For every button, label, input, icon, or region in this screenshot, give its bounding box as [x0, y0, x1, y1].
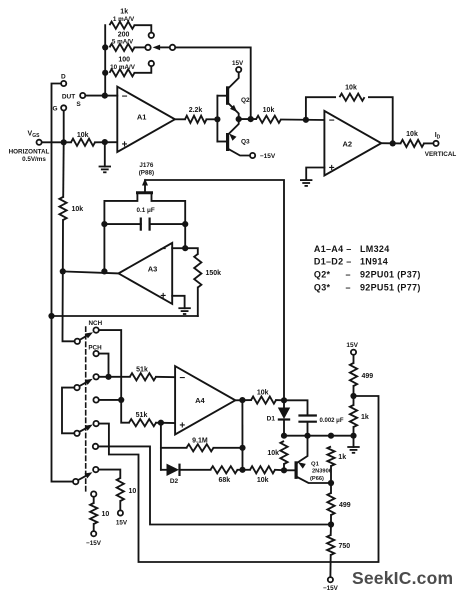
svg-text:10: 10	[129, 488, 137, 495]
wire pole2-pole3 bracket	[62, 388, 74, 434]
svg-text:DUT: DUT	[62, 93, 75, 100]
node A3 output rail	[101, 268, 107, 274]
svg-text:10k: 10k	[267, 450, 279, 457]
svg-text:+: +	[160, 291, 166, 302]
svg-text:499: 499	[362, 373, 374, 380]
wire A3 minus input	[172, 247, 185, 249]
svg-text:1k: 1k	[361, 414, 369, 421]
svg-text:750: 750	[339, 543, 351, 550]
svg-text:0.5V/ms: 0.5V/ms	[22, 156, 46, 163]
svg-text:5 mA/V: 5 mA/V	[112, 39, 134, 46]
svg-text:–: –	[346, 270, 351, 280]
wire switch gang dashed	[85, 327, 87, 491]
ground bias bus	[347, 447, 359, 453]
resistor 1k upper	[350, 396, 369, 436]
resistor 51k (A4 minus)	[130, 366, 175, 380]
wire base rail	[216, 96, 218, 142]
svg-text:10k: 10k	[72, 206, 84, 213]
wire bias bus	[284, 436, 354, 447]
wire A1 minus input	[105, 95, 118, 97]
svg-text:NCH: NCH	[88, 320, 102, 327]
wire A2 output	[381, 142, 400, 144]
svg-text:15V: 15V	[116, 520, 128, 527]
svg-text:−: −	[179, 373, 185, 384]
resistor 1k (Q1 collector)	[327, 447, 346, 484]
svg-text:D1: D1	[267, 416, 276, 423]
node cap left	[101, 221, 107, 227]
node selector join	[248, 116, 254, 122]
wire pole4 to D rail	[52, 316, 73, 482]
svg-text:10k: 10k	[257, 390, 269, 397]
node A2 minus	[303, 117, 309, 123]
terminal 15V top	[346, 342, 358, 355]
wire throw2-lower	[100, 399, 121, 401]
watermark SeekIC.com	[352, 568, 453, 588]
svg-text:A1: A1	[137, 113, 147, 122]
node A4 plus rail	[158, 420, 164, 426]
node G junction	[61, 139, 67, 145]
op-amp A3	[119, 243, 173, 304]
contact circle row1	[149, 33, 154, 38]
resistor 10k (A4 out)	[251, 390, 284, 404]
svg-text:−: −	[329, 116, 335, 127]
parts list	[314, 244, 421, 293]
resistor 10 (-15V branch)	[90, 498, 109, 530]
svg-text:−15V: −15V	[86, 540, 102, 547]
selector wiper arrow	[153, 45, 169, 51]
wire A1 inverting-node rail	[104, 25, 106, 95]
wire A4 out rail down	[241, 400, 243, 470]
svg-text:–: –	[346, 283, 351, 293]
terminal ID vertical	[425, 132, 457, 158]
svg-text:Q3: Q3	[241, 139, 250, 146]
label DUT	[62, 93, 75, 100]
resistor 499 lower	[327, 483, 350, 525]
svg-text:92PU51 (P77): 92PU51 (P77)	[360, 283, 421, 293]
svg-text:2N3906: 2N3906	[312, 469, 332, 475]
switch throw PCH	[93, 351, 98, 356]
svg-text:1 mA/V: 1 mA/V	[113, 16, 135, 23]
terminal -15V Q3	[250, 153, 276, 160]
node 499/1k	[350, 393, 356, 399]
svg-text:10k: 10k	[77, 132, 89, 139]
svg-text:A2: A2	[343, 139, 353, 148]
node A1 plus	[102, 139, 108, 145]
svg-text:51k: 51k	[136, 412, 148, 419]
node Q1 collector	[328, 480, 334, 486]
wire emitter node	[239, 118, 256, 120]
wire PCH line	[100, 354, 109, 377]
svg-text:10k: 10k	[257, 477, 269, 484]
svg-text:100: 100	[118, 57, 130, 64]
switch pole 2	[74, 379, 92, 391]
svg-text:10: 10	[102, 511, 110, 518]
label NCH	[88, 320, 102, 327]
node base rail	[214, 116, 220, 122]
svg-text:1k: 1k	[120, 8, 128, 15]
resistor 10 (15V branch)	[117, 478, 137, 509]
node bank-row3	[102, 70, 108, 76]
terminal S	[76, 93, 105, 108]
svg-text:0.002 μF: 0.002 μF	[320, 418, 344, 424]
node 9.1M right	[239, 445, 245, 451]
svg-text:(P66): (P66)	[310, 476, 324, 482]
svg-text:D: D	[61, 74, 66, 81]
svg-text:LM324: LM324	[360, 244, 390, 254]
svg-text:51k: 51k	[136, 366, 148, 373]
switch pole 4	[73, 472, 92, 484]
op-amp A2	[324, 111, 381, 176]
svg-text:HORIZONTAL: HORIZONTAL	[9, 148, 50, 155]
svg-text:VERTICAL: VERTICAL	[425, 151, 457, 158]
capacitor 0.1uF	[104, 207, 185, 231]
contact circle row3	[149, 61, 154, 66]
switch throw 4 upper	[93, 467, 98, 472]
node Q1 base	[281, 467, 287, 473]
resistor 10k output	[401, 131, 433, 147]
transistor Q3	[217, 119, 250, 155]
resistor 150k	[185, 248, 221, 316]
wire NCH line	[100, 330, 129, 423]
svg-text:2.2k: 2.2k	[189, 107, 203, 114]
node emitters	[236, 116, 242, 122]
node NCH line throw2	[118, 397, 124, 403]
node bus ground	[350, 433, 356, 439]
wire G rail lower	[63, 220, 74, 341]
switch throw 4 lower	[91, 491, 96, 496]
switch throw 3 upper	[93, 421, 98, 426]
svg-text:1k: 1k	[338, 454, 346, 461]
svg-text:+: +	[329, 163, 335, 174]
svg-text:499: 499	[339, 502, 351, 509]
resistor 51k (A4 plus)	[129, 412, 175, 426]
svg-text:D2: D2	[170, 478, 179, 485]
label J176	[139, 162, 154, 177]
svg-text:−: −	[122, 91, 128, 102]
resistor 10k vertical G rail	[59, 197, 83, 220]
node A3 minus	[182, 245, 188, 251]
resistor 10k feedback A2	[336, 85, 368, 106]
svg-text:10k: 10k	[263, 107, 275, 114]
resistor 10k (A1 + input)	[71, 132, 117, 146]
wire throw4-upper to 10ohm	[100, 470, 121, 478]
resistor 1k (1 mA/V)	[110, 8, 152, 31]
wire A3 output to G rail	[63, 271, 119, 273]
terminal 15V Q2	[232, 60, 244, 72]
svg-text:200: 200	[118, 31, 130, 38]
node bank-row2	[102, 44, 108, 50]
capacitor 0.002uF	[284, 400, 344, 435]
svg-text:A4: A4	[195, 396, 205, 405]
svg-text:92PU01 (P37): 92PU01 (P37)	[360, 270, 421, 280]
switch pole 1	[75, 332, 93, 344]
terminal G	[52, 105, 66, 142]
svg-text:15V: 15V	[346, 342, 358, 349]
svg-text:1N914: 1N914	[360, 257, 388, 267]
wire 150k bottom to D rail	[52, 315, 198, 317]
svg-text:+: +	[122, 140, 128, 151]
svg-text:+: +	[179, 420, 185, 431]
terminal -15V bottom	[323, 577, 339, 592]
svg-text:Q2*: Q2*	[314, 270, 331, 280]
node D rail 150k	[48, 313, 54, 319]
node cap right	[182, 221, 188, 227]
switch throw 2 upper	[93, 374, 98, 379]
svg-text:A3: A3	[148, 265, 158, 274]
terminal D	[52, 74, 67, 316]
terminal -15V switch	[86, 531, 102, 547]
ground A3 plus	[172, 296, 191, 314]
diode D2	[161, 464, 211, 485]
JFET J176	[104, 179, 185, 225]
svg-text:A1–A4 –: A1–A4 –	[314, 244, 352, 254]
node D1 top	[281, 397, 287, 403]
svg-text:−: −	[160, 244, 166, 255]
resistor 100 (10 mA/V)	[110, 57, 152, 77]
node bus D1	[281, 433, 287, 439]
svg-text:Q3*: Q3*	[314, 283, 331, 293]
svg-text:D1–D2 –: D1–D2 –	[314, 257, 352, 267]
node PCH junction	[105, 374, 111, 380]
switch throw 3 lower	[93, 444, 98, 449]
ground A2 plus	[300, 168, 324, 186]
node A1 minus	[102, 93, 108, 99]
node A4 output	[239, 397, 245, 403]
wire wiper to emitter node	[176, 47, 250, 116]
svg-text:0.1 μF: 0.1 μF	[136, 207, 154, 214]
diode D1	[267, 400, 291, 435]
svg-text:−15V: −15V	[260, 153, 276, 160]
svg-text:SeekIC.com: SeekIC.com	[352, 568, 453, 588]
resistor 10k (Q1 base row)	[250, 466, 284, 484]
wire G rail upper	[62, 142, 65, 197]
switch throw 2 lower	[93, 397, 98, 402]
svg-text:−15V: −15V	[323, 585, 339, 592]
wire J176 gate to A4 output node	[145, 180, 284, 400]
resistor 10k (A2 input)	[256, 107, 324, 123]
op-amp A1	[117, 87, 175, 152]
wire A4 output	[235, 399, 251, 401]
wire integrator left rail	[103, 224, 105, 271]
svg-text:Q2: Q2	[241, 97, 250, 104]
svg-text:68k: 68k	[218, 477, 230, 484]
switch throw NCH	[93, 327, 98, 332]
svg-text:150k: 150k	[206, 270, 222, 277]
svg-text:15V: 15V	[232, 60, 244, 67]
resistor 2.2k	[175, 107, 218, 123]
transistor Q2	[217, 73, 250, 119]
wire throw3-upper to right bus	[100, 396, 379, 562]
node bus cap	[304, 433, 310, 439]
node 68k/10k	[239, 467, 245, 473]
ground A1 plus	[99, 142, 111, 172]
node bus 1k	[328, 433, 334, 439]
svg-text:10 mA/V: 10 mA/V	[110, 64, 136, 71]
svg-text:G: G	[52, 105, 57, 112]
svg-text:9.1M: 9.1M	[192, 437, 208, 444]
terminal 15V switch	[116, 510, 128, 526]
svg-text:10k: 10k	[345, 85, 357, 92]
svg-text:S: S	[76, 101, 81, 108]
label PCH	[88, 345, 102, 352]
resistor 499 upper	[350, 356, 373, 396]
svg-text:10k: 10k	[406, 131, 418, 138]
wire throw2-upper row	[100, 376, 130, 378]
wire integrator right rail	[184, 224, 186, 248]
op-amp A4	[175, 366, 235, 434]
terminal VGS	[9, 131, 50, 164]
wire VGS to 10k	[43, 141, 71, 143]
resistor 200 (5 mA/V)	[110, 31, 145, 51]
wiper pivot circle	[170, 45, 175, 50]
wire throw3-lower to 499/750 node	[99, 446, 331, 524]
node A2 output	[390, 140, 396, 146]
node G rail A3	[60, 268, 66, 274]
resistor 68k	[211, 466, 251, 484]
svg-text:(P88): (P88)	[139, 169, 154, 176]
switch pole 3	[74, 425, 92, 436]
wire A2 feedback	[306, 97, 393, 143]
svg-text:Q1: Q1	[311, 462, 320, 468]
svg-text:J176: J176	[139, 162, 154, 169]
wire A4 plus rail down	[160, 423, 162, 470]
contact circle row2	[145, 45, 150, 50]
resistor 750	[327, 525, 350, 576]
resistor 10k vertical (Q1 base)	[267, 441, 287, 470]
transistor Q1	[284, 436, 332, 483]
resistor 9.1M	[161, 437, 243, 451]
node 499/750	[328, 521, 334, 527]
